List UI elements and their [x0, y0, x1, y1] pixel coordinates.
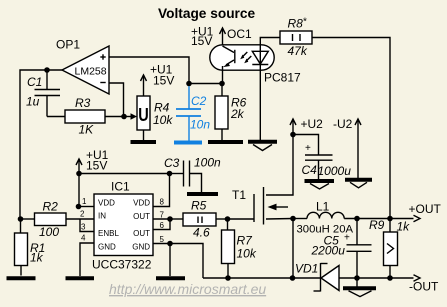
wire: +U1 rail to C3	[79, 173, 170, 175]
pin 7 stub	[153, 218, 170, 220]
ground under -U2	[345, 180, 372, 188]
svg-text:L1: L1	[316, 200, 330, 214]
potentiometer R4	[137, 96, 173, 130]
node: R3/R4 wiper junction	[121, 114, 127, 120]
ground under C4	[305, 181, 335, 189]
resistor R1	[15, 219, 46, 276]
svg-text:R7: R7	[237, 234, 254, 248]
svg-text:R5: R5	[191, 199, 207, 213]
capacitor C4	[302, 143, 352, 180]
resistor R7	[222, 219, 257, 278]
svg-text:IC1: IC1	[111, 180, 130, 194]
svg-text:R3: R3	[75, 96, 91, 110]
svg-text:R9: R9	[369, 218, 385, 232]
svg-text:100n: 100n	[194, 156, 221, 170]
svg-text:http://www.microsmart.eu: http://www.microsmart.eu	[109, 281, 266, 297]
svg-text:C3: C3	[164, 156, 180, 170]
node: pin1	[76, 204, 82, 210]
optocoupler OC1 PC817	[210, 27, 301, 85]
ground under R6	[208, 129, 243, 142]
svg-text:+: +	[344, 233, 350, 244]
node	[354, 275, 360, 281]
ground under OC1 LED	[248, 142, 277, 151]
svg-text:GND: GND	[132, 243, 150, 252]
-OUT terminal arrow	[409, 275, 439, 294]
svg-text:15V: 15V	[191, 34, 212, 48]
svg-text:3: 3	[81, 223, 86, 232]
wire: op-amp output to left rail	[20, 70, 62, 219]
node: pin5	[167, 241, 173, 247]
svg-text:PC817: PC817	[264, 71, 301, 85]
svg-text:5: 5	[160, 235, 165, 244]
svg-text:OUT: OUT	[133, 229, 150, 238]
wire: source to switch node	[266, 218, 293, 221]
svg-text:10k: 10k	[237, 247, 257, 261]
svg-text:1u: 1u	[26, 95, 40, 109]
ground under C2 (blue)	[174, 141, 202, 145]
svg-text:1: 1	[82, 197, 87, 206]
wire: R8 to +OUT rail	[312, 38, 390, 219]
supply +U2 arrow	[290, 117, 323, 135]
pin 4 wire to ground	[80, 243, 94, 276]
svg-text:1k: 1k	[397, 220, 411, 234]
node: pin7	[167, 216, 173, 222]
inductor L1	[293, 200, 354, 236]
node	[290, 132, 296, 138]
wire: +U2 down to T1 drain	[266, 135, 293, 196]
wire: LED cathode down to ground	[259, 65, 261, 141]
svg-text:C4: C4	[302, 163, 318, 177]
svg-text:15V: 15V	[153, 74, 174, 88]
svg-text:T1: T1	[232, 188, 246, 202]
capacitor C5	[311, 219, 372, 279]
svg-text:Voltage source: Voltage source	[158, 6, 255, 21]
svg-text:R2: R2	[43, 200, 59, 214]
IC U1 UCC37322	[80, 180, 165, 272]
svg-text:VDD: VDD	[98, 198, 115, 207]
svg-text:10k: 10k	[153, 113, 173, 127]
svg-text:OP1: OP1	[56, 38, 80, 52]
resistor R6	[215, 84, 247, 130]
svg-text:100: 100	[39, 225, 59, 239]
svg-text:C2: C2	[191, 94, 207, 108]
supply -U2 arrow	[333, 117, 361, 178]
pin 3 tie to pin 2	[80, 219, 94, 232]
supply +U1 arrow above IC1	[76, 148, 109, 174]
wire: emitter down to rail	[222, 66, 224, 84]
pin 1 stub	[79, 206, 95, 208]
svg-text:8: 8	[160, 198, 165, 207]
svg-text:1000u: 1000u	[318, 164, 352, 178]
svg-text:LM258: LM258	[75, 66, 107, 78]
svg-text:U: U	[138, 104, 149, 125]
node	[186, 81, 192, 87]
resistor R8	[280, 17, 312, 59]
ground under R4	[131, 130, 157, 142]
node	[76, 171, 82, 177]
node	[387, 275, 393, 281]
resistor R3	[65, 96, 105, 137]
wire: anode to -OUT rail	[339, 277, 414, 279]
pin 6 tie to pin 7	[153, 219, 170, 230]
node: output junction dot	[44, 67, 50, 73]
supply +U1 arrow above R4	[141, 63, 175, 97]
wire: down to pin 1	[78, 174, 80, 207]
svg-text:2200u: 2200u	[311, 244, 346, 258]
wire: gate	[228, 218, 255, 220]
svg-text:VDD: VDD	[133, 198, 150, 207]
svg-text:C1: C1	[27, 75, 42, 89]
svg-text:*: *	[303, 17, 307, 28]
svg-text:47k: 47k	[288, 44, 308, 58]
node	[219, 81, 225, 87]
svg-text:-OUT: -OUT	[409, 279, 439, 293]
svg-text:R8: R8	[288, 17, 304, 31]
svg-text:4: 4	[81, 234, 86, 243]
svg-text:2: 2	[80, 210, 85, 219]
wire: - input down to R3/R4 node	[109, 83, 124, 117]
wire	[105, 116, 124, 118]
ground under C3	[187, 192, 218, 196]
svg-text:1k: 1k	[30, 251, 44, 265]
node	[290, 275, 296, 281]
op-amp OP1	[56, 38, 109, 95]
wire	[20, 218, 35, 220]
wire: switch node down	[292, 219, 294, 279]
node	[167, 171, 173, 177]
supply +U1 arrow at OC1 collector	[191, 25, 226, 49]
svg-text:+OUT: +OUT	[409, 202, 442, 216]
node	[225, 275, 231, 281]
wire: C3 node down to pin 8	[153, 174, 170, 207]
wire: + input to C2/R6 rail	[109, 57, 189, 84]
svg-text:IN: IN	[98, 212, 106, 221]
svg-text:-U2: -U2	[333, 117, 353, 131]
ground under C5	[343, 278, 376, 297]
wire: L1 to +OUT	[344, 218, 413, 220]
ground under pin 4	[66, 276, 95, 280]
transistor T1	[232, 187, 288, 225]
svg-text:VD1: VD1	[295, 262, 318, 276]
wire: pin5 to ground	[169, 244, 171, 277]
svg-text:6: 6	[160, 221, 165, 230]
svg-text:2k: 2k	[230, 107, 245, 121]
capacitor C3	[164, 156, 221, 194]
svg-text:UCC37322: UCC37322	[92, 258, 152, 272]
pin 5 stub	[153, 243, 170, 245]
resistor R9	[369, 218, 410, 278]
svg-text:7: 7	[160, 211, 165, 220]
resistor R5	[170, 199, 228, 240]
node	[354, 216, 360, 222]
wire	[47, 116, 65, 118]
wire: pin5 to bottom rail	[170, 244, 203, 279]
node	[387, 216, 393, 222]
pin 2 wire from R2	[66, 218, 94, 220]
wire: LED anode up to R8	[260, 38, 280, 65]
ground under R1	[7, 276, 36, 280]
svg-text:GND: GND	[98, 243, 116, 252]
svg-text:4.6: 4.6	[193, 226, 210, 240]
svg-text:1K: 1K	[79, 123, 95, 137]
capacitor C2 (blue)	[176, 86, 210, 142]
svg-text:OUT: OUT	[133, 212, 150, 221]
+OUT terminal arrow	[409, 202, 442, 222]
node: gate junction	[225, 216, 231, 222]
svg-text:10n: 10n	[190, 118, 210, 132]
ground under pin 5	[156, 276, 185, 280]
capacitor C1	[26, 70, 60, 117]
svg-text:15V: 15V	[86, 158, 107, 172]
bottom rail	[203, 277, 321, 279]
diode VD1 (schottky)	[295, 262, 339, 292]
svg-text:ENBL: ENBL	[98, 229, 119, 238]
wire to C4	[293, 135, 319, 156]
svg-text:+U2: +U2	[301, 117, 324, 131]
wire: rail between C2 and R6	[189, 83, 222, 85]
svg-text:OC1: OC1	[227, 27, 252, 41]
svg-text:+: +	[305, 143, 311, 154]
node: switch node	[290, 216, 296, 222]
potentiometer R4 wiper arrow	[124, 113, 137, 119]
node	[18, 216, 24, 222]
resistor R2	[35, 200, 67, 240]
